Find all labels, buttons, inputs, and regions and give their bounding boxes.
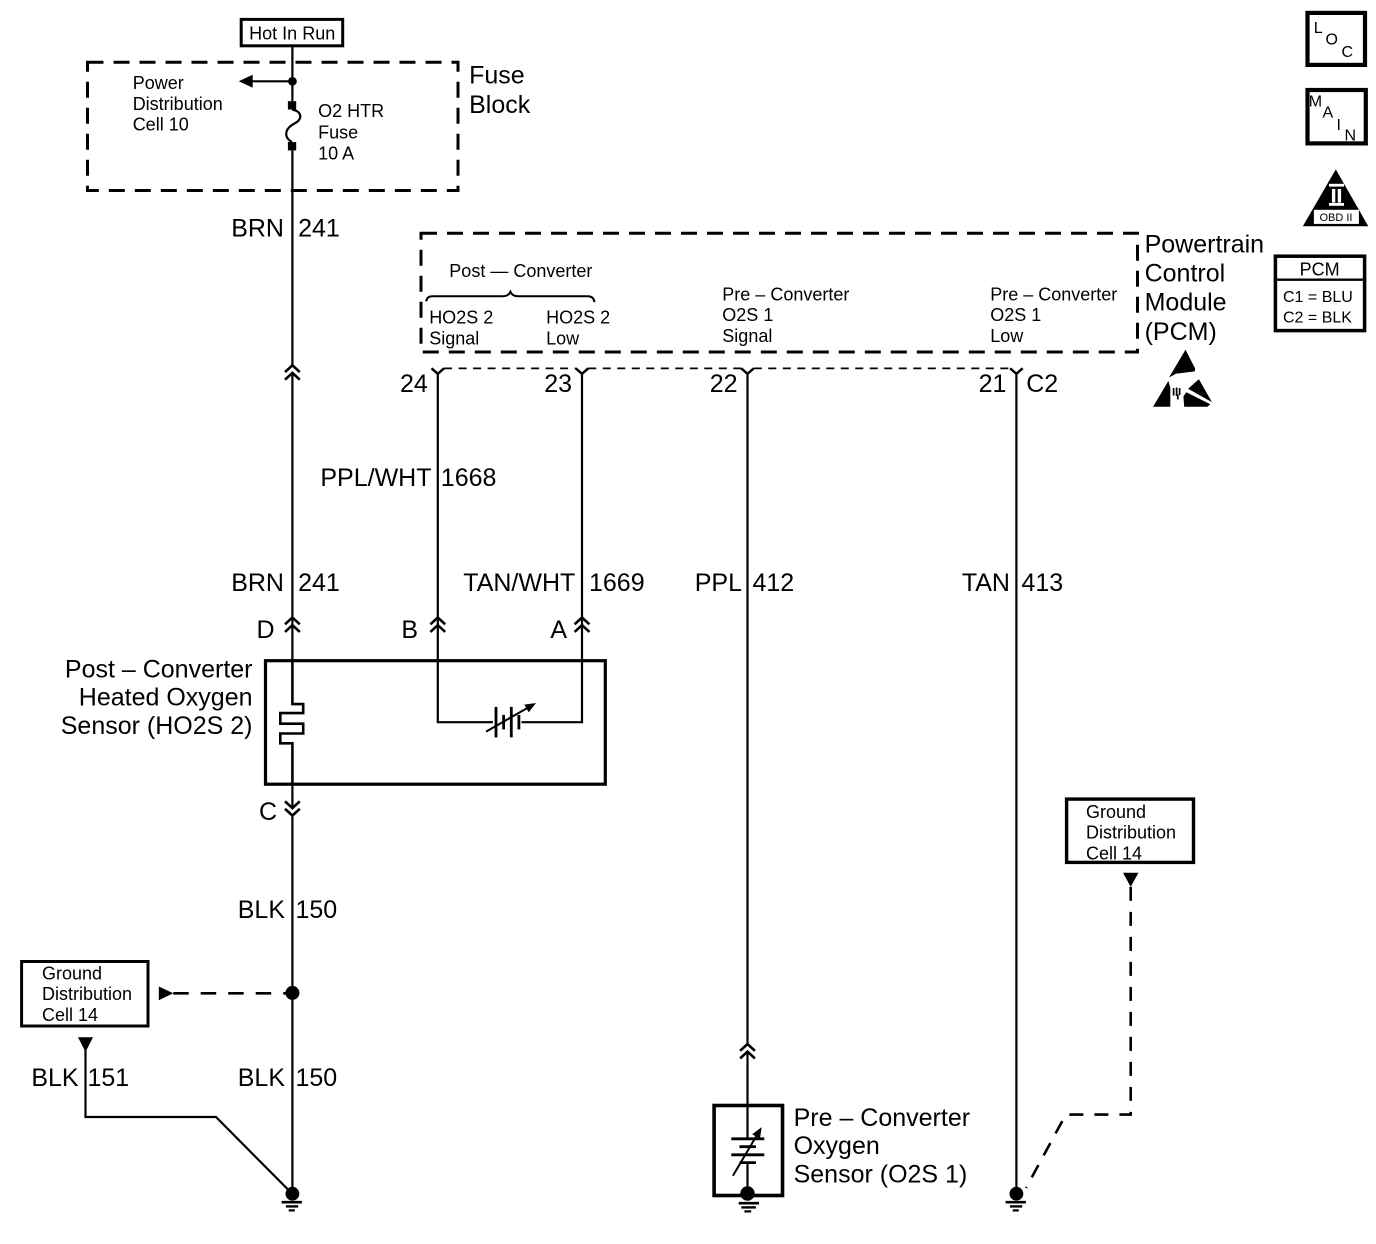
svg-text:241: 241 — [298, 215, 340, 243]
svg-text:Block: Block — [469, 91, 531, 119]
svg-text:BLK: BLK — [238, 1064, 286, 1092]
svg-text:Fuse: Fuse — [469, 62, 525, 90]
svg-text:Module: Module — [1145, 289, 1227, 317]
wire PPL/WHT 1668 from pin 24 — [437, 374, 439, 661]
svg-text:22: 22 — [710, 370, 738, 398]
Powertrain Control Module (PCM) label — [1145, 231, 1265, 347]
pin 21 terminal (connector C2) — [1010, 368, 1023, 374]
pin label HO2S 2 Low — [546, 308, 610, 349]
svg-text:N: N — [1345, 128, 1357, 145]
wire PPL 412 from pin 22 — [746, 374, 748, 1044]
ground G (left) — [282, 1187, 302, 1211]
svg-text:Post — Converter: Post — Converter — [449, 261, 592, 281]
wire BLK 151 to ground — [86, 1050, 289, 1190]
HO2S2 sensor box — [266, 661, 606, 785]
svg-text:B: B — [401, 616, 418, 644]
svg-text:BLK: BLK — [238, 896, 286, 924]
label TAN 413 — [962, 569, 1063, 597]
Pre-Converter Oxygen Sensor (O2S 1) label — [794, 1104, 970, 1189]
wire TAN 413 from pin 21 to ground — [1015, 374, 1017, 1187]
wire: ignition feed from Hot In Run into fuse — [291, 46, 293, 101]
svg-text:D: D — [256, 616, 274, 644]
dashed reference line from right Ground box to TAN ground — [1026, 887, 1131, 1188]
connector C chevrons (pointing down) — [259, 784, 300, 826]
svg-text:23: 23 — [544, 370, 572, 398]
svg-text:Distribution: Distribution — [133, 94, 223, 114]
svg-text:BRN: BRN — [231, 569, 284, 597]
PCM connector legend box — [1275, 256, 1364, 330]
svg-text:241: 241 — [298, 569, 340, 597]
svg-text:412: 412 — [753, 569, 795, 597]
svg-text:M: M — [1309, 94, 1322, 111]
O2S1 sensor box — [714, 1106, 782, 1196]
svg-text:Signal: Signal — [722, 326, 772, 346]
svg-text:10 A: 10 A — [318, 144, 354, 164]
svg-text:Sensor (HO2S 2): Sensor (HO2S 2) — [61, 712, 253, 740]
svg-text:1668: 1668 — [441, 464, 497, 492]
pin label Pre-Converter O2S 1 Signal — [722, 284, 849, 346]
inline connector chevrons on BRN wire — [285, 365, 300, 379]
fuse O2 HTR 10 A (terminals and element) — [286, 101, 300, 150]
arrowhead from left Ground box — [159, 987, 173, 1001]
svg-text:O2S 1: O2S 1 — [990, 305, 1041, 325]
svg-text:C2 = BLK: C2 = BLK — [1283, 310, 1352, 327]
label BLK 151 — [31, 1064, 129, 1092]
svg-text:HO2S 2: HO2S 2 — [429, 308, 493, 328]
svg-text:151: 151 — [88, 1064, 130, 1092]
svg-text:PCM: PCM — [1300, 259, 1340, 279]
pin 23 terminal — [576, 368, 589, 374]
pin label Pre-Converter O2S 1 Low — [990, 284, 1117, 346]
Post-Converter Heated Oxygen Sensor (HO2S 2) label — [61, 655, 253, 740]
brace under Post-Converter — [426, 292, 594, 302]
left Ground Distribution Cell 14 box — [22, 962, 148, 1027]
arrowhead to Power Distribution cell — [239, 75, 253, 88]
svg-text:Low: Low — [546, 328, 580, 348]
svg-text:C1 = BLU: C1 = BLU — [1283, 289, 1353, 306]
svg-text:BRN: BRN — [231, 215, 284, 243]
svg-text:C2: C2 — [1026, 370, 1058, 398]
wire: branch to Power Distribution — [250, 80, 292, 82]
label PPL 412 — [695, 569, 794, 597]
svg-text:Control: Control — [1145, 260, 1226, 288]
svg-text:O: O — [1326, 32, 1338, 49]
pin label HO2S 2 Signal — [429, 308, 493, 349]
label PPL/WHT 1668 — [320, 464, 496, 492]
ESD sensitive device symbol — [1153, 350, 1212, 407]
OBD II badge — [1303, 169, 1369, 226]
label BRN 241 (lower) — [231, 569, 340, 597]
LOC badge — [1308, 13, 1366, 65]
svg-text:Distribution: Distribution — [42, 984, 132, 1004]
svg-text:Distribution: Distribution — [1086, 823, 1176, 843]
svg-text:21: 21 — [979, 370, 1007, 398]
svg-text:(PCM): (PCM) — [1145, 318, 1217, 346]
svg-text:Signal: Signal — [429, 328, 479, 348]
PCM dashed box — [421, 233, 1138, 352]
svg-text:1669: 1669 — [589, 569, 645, 597]
label BLK 150 (upper) — [238, 896, 337, 924]
junction dot at fuse feed — [288, 77, 297, 86]
connector letter A with chevrons — [550, 616, 589, 644]
svg-text:24: 24 — [400, 370, 428, 398]
svg-text:O2S 1: O2S 1 — [722, 305, 773, 325]
MAIN badge — [1308, 90, 1366, 145]
svg-text:Pre – Converter: Pre – Converter — [990, 284, 1117, 304]
Fuse Block label — [469, 62, 531, 119]
svg-text:Cell 14: Cell 14 — [1086, 844, 1142, 864]
fuse block dashed box — [88, 62, 459, 190]
svg-text:Cell 14: Cell 14 — [42, 1005, 98, 1025]
ground at TAN 413 wire — [1006, 1187, 1026, 1211]
svg-text:O2 HTR: O2 HTR — [318, 101, 384, 121]
svg-text:Ground: Ground — [42, 963, 102, 983]
svg-text:TAN: TAN — [962, 569, 1010, 597]
svg-text:L: L — [1314, 20, 1323, 37]
svg-text:A: A — [550, 616, 567, 644]
pin 22 terminal — [741, 368, 754, 374]
wire BLK 150 from connector C to ground — [291, 816, 293, 1190]
svg-text:A: A — [1323, 105, 1334, 122]
heater element inside HO2S2 — [280, 661, 303, 784]
svg-text:Cell 10: Cell 10 — [133, 115, 189, 135]
PCM connector dashed line — [444, 367, 1010, 369]
svg-text:Hot In Run: Hot In Run — [249, 24, 335, 44]
wire PPL into O2S1 — [746, 1052, 748, 1106]
svg-text:Post – Converter: Post – Converter — [65, 655, 253, 683]
label TAN/WHT 1669 — [463, 569, 644, 597]
svg-text:Pre – Converter: Pre – Converter — [794, 1104, 970, 1132]
svg-text:HO2S 2: HO2S 2 — [546, 308, 610, 328]
pin 24 terminal — [432, 368, 445, 374]
svg-text:C: C — [259, 798, 277, 826]
dashed reference line to junction — [173, 992, 286, 995]
down triangle terminal of BLK 151 — [78, 1037, 93, 1052]
svg-text:PPL: PPL — [695, 569, 742, 597]
svg-text:C: C — [1342, 44, 1354, 61]
svg-text:OBD II: OBD II — [1319, 212, 1352, 224]
O2 HTR Fuse 10 A label — [318, 101, 384, 164]
svg-text:TAN/WHT: TAN/WHT — [463, 569, 575, 597]
svg-text:150: 150 — [296, 896, 338, 924]
svg-text:Heated Oxygen: Heated Oxygen — [79, 684, 253, 712]
svg-text:Ground: Ground — [1086, 802, 1146, 822]
connector letter B with chevrons — [401, 616, 445, 644]
inline connector chevrons on PPL wire — [740, 1044, 755, 1058]
svg-text:Powertrain: Powertrain — [1145, 231, 1265, 259]
svg-text:413: 413 — [1022, 569, 1064, 597]
wire TAN/WHT 1669 from pin 23 — [581, 374, 583, 661]
svg-text:Sensor (O2S 1): Sensor (O2S 1) — [794, 1160, 968, 1188]
svg-text:Low: Low — [990, 326, 1024, 346]
svg-text:BLK: BLK — [31, 1064, 79, 1092]
sensor element (variable cell) inside O2S1 — [731, 1106, 764, 1189]
Power Distribution Cell 10 reference label — [133, 73, 223, 135]
wire BRN 241 from fuse to inline connector — [291, 150, 293, 365]
svg-text:I: I — [1337, 117, 1341, 134]
svg-text:Oxygen: Oxygen — [794, 1132, 880, 1160]
svg-text:Fuse: Fuse — [318, 122, 358, 142]
svg-text:Power: Power — [133, 73, 184, 93]
svg-text:Pre – Converter: Pre – Converter — [722, 284, 849, 304]
wire BRN 241 from connector to HO2S2 box — [291, 373, 293, 661]
svg-text:PPL/WHT: PPL/WHT — [320, 464, 431, 492]
down triangle terminal under right Ground box — [1123, 873, 1139, 887]
sensor element (variable cell) inside HO2S2 — [438, 661, 582, 738]
svg-text:150: 150 — [296, 1064, 338, 1092]
right Ground Distribution Cell 14 box — [1067, 799, 1194, 863]
junction dot on BLK 150 wire — [285, 986, 299, 1000]
ground at O2S1 case — [739, 1186, 759, 1211]
label BRN 241 (upper) — [231, 215, 340, 243]
label BLK 150 (lower) — [238, 1064, 337, 1092]
connector letter D with chevrons — [256, 616, 299, 644]
Hot In Run power tag — [241, 19, 343, 45]
